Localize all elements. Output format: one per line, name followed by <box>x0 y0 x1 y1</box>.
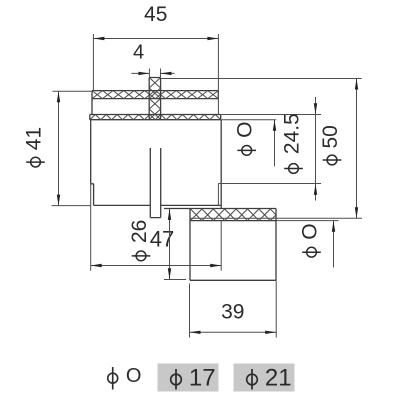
strip2 hatch <box>90 115 221 120</box>
dim 4 extension lines <box>149 69 160 78</box>
dim phi24.5 text <box>281 113 304 173</box>
svg-text:O: O <box>126 365 142 387</box>
strip3 washer band <box>191 220 277 222</box>
svg-text:24.5: 24.5 <box>281 113 304 154</box>
main body outline <box>91 120 222 209</box>
dim 39 extension lines <box>190 281 277 338</box>
dim phiO bottom-right line <box>333 221 335 268</box>
dim 45 arrows <box>93 37 218 40</box>
dim phi50 line <box>356 79 358 219</box>
svg-text:O: O <box>234 122 257 138</box>
dim 39 line <box>190 331 277 333</box>
dim 47 horizontal extension lines <box>91 184 222 271</box>
svg-text:O: O <box>299 223 322 239</box>
dim 26 vertical line <box>169 209 171 279</box>
svg-text:45: 45 <box>144 3 167 26</box>
plate line lower extension <box>276 220 339 222</box>
hub column <box>149 78 160 120</box>
dim phi24.5 arrows <box>314 103 317 194</box>
dim phi24.5 line <box>315 97 317 201</box>
label phi21 box <box>234 364 295 392</box>
svg-text:4: 4 <box>133 42 144 64</box>
dim phi41 arrows <box>57 91 60 205</box>
dim phi50 top extension <box>161 78 362 80</box>
strip2 lower flange band <box>90 115 221 120</box>
plate line mid <box>191 217 363 219</box>
dim 47 horizontal line <box>91 265 222 267</box>
bore slot walls <box>150 148 160 218</box>
dim 4 lines <box>131 72 174 74</box>
label phiO bottom <box>108 365 142 390</box>
strip1 hatch <box>92 91 218 99</box>
dim phi50 text <box>319 125 342 165</box>
body right inner step <box>217 184 219 206</box>
dim 4 arrows <box>138 72 171 75</box>
dim phiO top-right text <box>234 122 257 156</box>
svg-text:39: 39 <box>221 301 244 324</box>
svg-text:41: 41 <box>23 127 46 150</box>
dim phi41 text <box>23 127 46 167</box>
dim phiO top-right line <box>274 120 276 166</box>
dim 26 vertical arrows <box>168 209 171 279</box>
dim phiO bottom-right arrow <box>332 221 335 232</box>
svg-text:26: 26 <box>128 220 151 243</box>
svg-text:21: 21 <box>265 365 292 392</box>
dim phi24.5 extension lines <box>218 115 321 184</box>
dim phi26 text <box>128 220 151 261</box>
dim 45 extension lines <box>93 34 218 114</box>
dim 47 horizontal arrows <box>91 264 222 267</box>
strip3 washer top edge <box>164 208 276 210</box>
strip3 hatch <box>191 209 277 221</box>
dim 45 line <box>93 38 218 40</box>
dim phi41 extension lines <box>52 91 92 205</box>
dim 26 vertical bottom extension <box>164 279 186 281</box>
svg-text:47: 47 <box>150 227 174 252</box>
lower sleeve outline <box>190 209 276 281</box>
strip1 top flange band <box>92 91 218 115</box>
svg-text:17: 17 <box>189 365 216 392</box>
label phi17 box <box>158 364 219 392</box>
dim phiO top-right extension <box>221 119 276 121</box>
dim phiO bottom-right text <box>299 223 322 257</box>
dim phi50 arrows <box>355 79 358 219</box>
dim phiO top-right arrow <box>273 120 276 131</box>
svg-text:50: 50 <box>319 125 342 148</box>
hub column crosshatch <box>149 78 160 120</box>
dim phi41 line <box>58 91 60 205</box>
dim 39 arrows <box>190 331 277 334</box>
